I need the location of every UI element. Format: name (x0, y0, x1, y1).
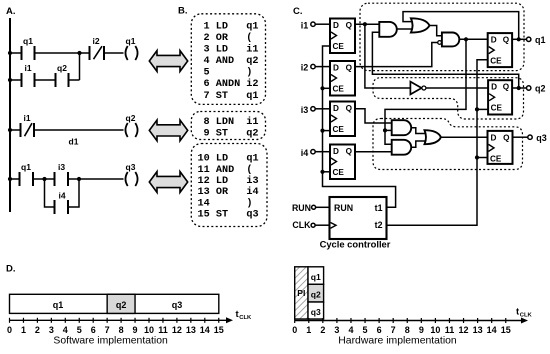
wire rung1 (10, 52, 22, 54)
wire parallel branch rung3 (45, 179, 55, 207)
wire i2.Q to AND2 inverted input (355, 43, 438, 67)
svg-text:5: 5 (363, 325, 368, 335)
software timeline bar (10, 294, 219, 313)
svg-text:11: 11 (158, 325, 168, 335)
wire q1 D-node feedback down to AND3/AND4 (385, 39, 466, 144)
AND gate AND4 (q1 AND i4) (392, 140, 411, 155)
svg-text:D: D (491, 133, 497, 142)
coil q1 (125, 46, 127, 60)
wire AND2 out to FF q1 D (459, 38, 487, 40)
svg-text:C.: C. (293, 6, 303, 17)
wire rung2 (10, 129, 21, 131)
wire AND3 out to OR2 (411, 128, 425, 134)
D flip-flop U7 (output q3) (488, 131, 513, 164)
svg-text:D: D (333, 63, 339, 72)
svg-text:Q: Q (346, 21, 353, 30)
D flip-flop U4 (input i4) (330, 145, 355, 180)
hardware q3 box (308, 302, 324, 319)
node q1 D (464, 37, 468, 41)
node q1 feedback to AND3 (383, 128, 387, 132)
wire q2 feedback to AND1 (372, 32, 518, 88)
node CE i2 (320, 86, 324, 90)
svg-text:q1: q1 (126, 36, 136, 46)
svg-text:B.: B. (178, 6, 188, 17)
svg-text:q2: q2 (311, 290, 321, 300)
svg-text:CE: CE (333, 168, 345, 177)
AND gate AND3 (q1 AND i3) (392, 120, 412, 135)
svg-text:0: 0 (7, 325, 12, 335)
wire i1.Q to AND1 (355, 23, 379, 25)
svg-text:q3: q3 (311, 307, 321, 317)
svg-text:t1: t1 (375, 203, 383, 213)
svg-text:CE: CE (490, 154, 502, 163)
wire OR1 out to AND2 (430, 26, 442, 36)
node rung1 branch junction (77, 51, 81, 55)
svg-text:CE: CE (333, 85, 345, 94)
svg-text:i2: i2 (92, 36, 99, 46)
svg-text:RUN: RUN (334, 203, 353, 213)
svg-text:q3: q3 (126, 162, 136, 172)
svg-text:8 LDN i1: 8 LDN i1 (204, 116, 259, 128)
svg-text:7: 7 (105, 325, 110, 335)
svg-text:2: 2 (320, 325, 325, 335)
svg-text:3: 3 (334, 325, 339, 335)
wire i1.Q down to NOT input (365, 24, 411, 88)
svg-text:i2: i2 (301, 63, 309, 73)
svg-text:D: D (491, 83, 497, 92)
wire q1 feedback to OR1 (403, 12, 519, 40)
IL box rung1 (lines 1-7) (191, 14, 265, 105)
wire AND1 out to OR1 (397, 28, 412, 30)
contact q2 (branch rung1) (55, 73, 57, 87)
svg-text:7 ST q1: 7 ST q1 (204, 91, 259, 102)
svg-text:Q: Q (503, 36, 510, 45)
svg-text:3: 3 (49, 325, 54, 335)
IL box rung2 (lines 8-9) (191, 112, 265, 140)
OR gate OR1 (411, 18, 430, 32)
contact q1 (rung3) (19, 172, 21, 186)
IL box rung3 (lines 10-15) (191, 144, 267, 227)
coil q2 (125, 123, 127, 137)
svg-text:q3: q3 (536, 133, 547, 143)
svg-text:12 LD i3: 12 LD i3 (198, 175, 259, 187)
svg-text:CE: CE (333, 125, 345, 134)
hardware axis ticks (294, 318, 296, 323)
wire q1.Q to output (512, 38, 526, 40)
NOT gate (LDN i1) (410, 82, 421, 95)
svg-text:Software implementation: Software implementation (53, 335, 168, 346)
software time axis (10, 319, 230, 321)
svg-text:Q: Q (346, 147, 353, 156)
D flip-flop U5 (output q1) (488, 33, 512, 67)
svg-text:D: D (491, 36, 497, 45)
hardware q2 box (308, 284, 324, 302)
wire i3.Q to AND3 (355, 109, 392, 123)
svg-text:12: 12 (172, 325, 182, 335)
node q1.Q (517, 37, 521, 41)
coil q3 (125, 172, 127, 186)
wire CE chain output FFs / t2 (387, 60, 488, 226)
svg-text:CLK: CLK (292, 220, 311, 230)
wire q3.Q to output (513, 136, 528, 138)
node CE q3 (475, 155, 479, 159)
svg-text:q1: q1 (535, 35, 546, 45)
svg-text:4 AND q2: 4 AND q2 (204, 56, 259, 67)
double arrow 2 (149, 120, 187, 141)
D flip-flop U3 (input i3) (330, 102, 355, 137)
dashed group box q3 logic (373, 119, 523, 170)
svg-text:8: 8 (405, 325, 410, 335)
AND gate AND1 (i1 AND q2) (379, 22, 397, 37)
wire AND4 out to OR2 (411, 141, 425, 147)
D flip-flop U1 (input i1) (330, 19, 355, 54)
svg-text:12: 12 (459, 325, 469, 335)
svg-text:D.: D. (6, 264, 16, 275)
svg-text:t2: t2 (375, 220, 383, 230)
svg-text:CLK: CLK (520, 312, 533, 318)
dashed group box q1 logic (360, 3, 524, 70)
node CE q2 (475, 107, 479, 111)
axis ticks (9, 318, 11, 323)
ladder left power rail (9, 18, 11, 212)
svg-text:CE: CE (333, 42, 345, 51)
output terminal q2 (527, 86, 531, 90)
dashed group box q2 logic (373, 78, 524, 119)
svg-text:9: 9 (419, 325, 424, 335)
svg-text:14: 14 (487, 325, 497, 335)
node rung1-rail (8, 51, 12, 55)
svg-text:10: 10 (430, 325, 440, 335)
svg-text:0: 0 (292, 325, 297, 335)
svg-text:11 AND (: 11 AND ( (198, 164, 253, 176)
D flip-flop U6 (output q2) (488, 80, 512, 114)
svg-text:q2: q2 (116, 300, 127, 310)
svg-text:D: D (333, 147, 339, 156)
svg-text:3 LD i1: 3 LD i1 (204, 43, 259, 55)
hardware time axis (295, 320, 524, 322)
svg-text:i1: i1 (24, 63, 31, 73)
svg-text:q1: q1 (23, 36, 33, 46)
svg-text:CLK: CLK (239, 315, 252, 321)
node CE i4 (320, 170, 324, 174)
wire q2.Q to output (512, 87, 526, 89)
node q2.Q (517, 86, 521, 90)
D flip-flop U2 (input i2) (330, 61, 355, 96)
svg-text:7: 7 (391, 325, 396, 335)
svg-text:4: 4 (348, 325, 353, 335)
svg-text:A.: A. (6, 6, 16, 17)
svg-text:15 ST q3: 15 ST q3 (198, 210, 259, 221)
svg-text:q2: q2 (57, 63, 67, 73)
svg-text:5: 5 (77, 325, 82, 335)
contact i2 normally-closed (rung1) (89, 46, 91, 60)
node rung2-rail (8, 128, 12, 132)
svg-text:15: 15 (501, 325, 511, 335)
svg-text:10 LD q1: 10 LD q1 (198, 154, 259, 165)
svg-text:q1: q1 (53, 300, 64, 310)
cycle controller box (330, 197, 387, 239)
svg-text:i1: i1 (23, 113, 30, 123)
double arrow 3 (149, 172, 187, 193)
svg-text:4: 4 (63, 325, 68, 335)
svg-text:1 LD q1: 1 LD q1 (204, 21, 259, 32)
contact i1 normally-closed (rung2) (20, 123, 22, 137)
svg-text:CE: CE (490, 57, 502, 66)
svg-text:15: 15 (214, 325, 224, 335)
node rung3 branch left (42, 177, 46, 181)
wire rung3 (10, 178, 20, 180)
svg-text:5 ): 5 ) (204, 67, 253, 79)
wire CE chain input FFs / t1 (323, 46, 396, 207)
node rung3-rail (8, 177, 12, 181)
svg-text:i1: i1 (301, 20, 309, 30)
svg-text:q2: q2 (535, 84, 546, 94)
contact q1 (rung1) (21, 46, 23, 60)
svg-text:9: 9 (133, 325, 138, 335)
output terminal q1 (527, 37, 531, 41)
contact i1 (branch rung1) (21, 73, 23, 87)
svg-text:Q: Q (503, 133, 510, 142)
node i1.Q (363, 22, 367, 26)
wire parallel branch rung1 (10, 79, 22, 81)
svg-text:PI: PI (297, 288, 305, 298)
svg-text:q1: q1 (311, 272, 321, 282)
wire NOT out to FF q2 D (426, 87, 488, 89)
svg-text:9 ST q2: 9 ST q2 (204, 129, 259, 140)
wire i4.Q to AND4 (355, 151, 392, 153)
svg-text:14: 14 (200, 325, 210, 335)
svg-text:i3: i3 (301, 105, 309, 115)
svg-text:1: 1 (21, 325, 26, 335)
svg-text:Q: Q (346, 104, 353, 113)
output terminal q3 (528, 135, 532, 139)
svg-text:D: D (333, 104, 339, 113)
double arrow 1 (149, 51, 187, 72)
svg-text:14 ): 14 ) (198, 197, 253, 209)
svg-text:1: 1 (306, 325, 311, 335)
svg-text:6 ANDN i2: 6 ANDN i2 (204, 78, 259, 90)
svg-text:d1: d1 (69, 137, 79, 147)
svg-text:q2: q2 (126, 113, 136, 123)
svg-text:13 OR i4: 13 OR i4 (198, 186, 259, 198)
segment q2 shaded (107, 294, 135, 313)
contact i3 (rung3) (54, 172, 56, 186)
AND gate AND2 (ANDN i2) with input bubble (438, 41, 442, 45)
node rung3 branch right (77, 177, 81, 181)
svg-text:10: 10 (144, 325, 154, 335)
svg-text:13: 13 (186, 325, 196, 335)
svg-text:2 OR (: 2 OR ( (204, 32, 253, 44)
node CE i3 (320, 129, 324, 133)
node branch1-rail (8, 78, 12, 82)
svg-text:11: 11 (445, 325, 455, 335)
hardware q1 box (308, 267, 324, 285)
svg-text:RUN: RUN (292, 203, 311, 213)
svg-text:Q: Q (346, 63, 353, 72)
svg-text:CE: CE (491, 104, 503, 113)
wire OR2 out to FF q3 D (441, 136, 488, 138)
svg-text:Q: Q (503, 83, 510, 92)
svg-text:Hardware implementation: Hardware implementation (338, 335, 457, 346)
OR gate OR2 (425, 130, 441, 144)
contact i4 (branch rung3) (54, 200, 56, 214)
svg-text:6: 6 (91, 325, 96, 335)
svg-text:i4: i4 (301, 148, 309, 158)
svg-text:6: 6 (377, 325, 382, 335)
svg-text:8: 8 (119, 325, 124, 335)
svg-text:Cycle controller: Cycle controller (320, 239, 391, 250)
svg-text:13: 13 (473, 325, 483, 335)
svg-text:i4: i4 (58, 191, 65, 201)
svg-text:q1: q1 (21, 162, 31, 172)
svg-text:i3: i3 (58, 162, 65, 172)
svg-text:q3: q3 (172, 300, 183, 310)
svg-text:2: 2 (35, 325, 40, 335)
svg-text:D: D (333, 21, 339, 30)
